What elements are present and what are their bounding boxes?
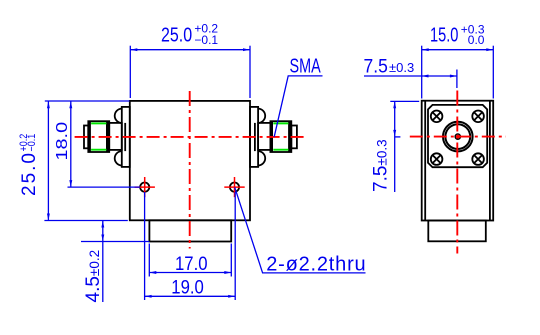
svg-text:25.0: 25.0 xyxy=(161,24,192,46)
svg-text:17.0: 17.0 xyxy=(175,253,208,274)
svg-text:7.5: 7.5 xyxy=(364,55,388,77)
svg-text:18.0: 18.0 xyxy=(53,122,70,161)
svg-text:±0.3: ±0.3 xyxy=(389,60,414,75)
svg-text:19.0: 19.0 xyxy=(171,277,204,298)
svg-text:SMA: SMA xyxy=(290,54,321,77)
svg-text:2-ø2.2thru: 2-ø2.2thru xyxy=(266,253,366,275)
svg-text:−0.1: −0.1 xyxy=(194,33,218,47)
svg-text:25.0: 25.0 xyxy=(19,151,40,196)
svg-text:0.0: 0.0 xyxy=(468,33,485,47)
svg-text:7.5±0.3: 7.5±0.3 xyxy=(371,139,392,192)
svg-text:15.0: 15.0 xyxy=(430,23,459,46)
svg-text:4.5±0.2: 4.5±0.2 xyxy=(83,250,104,303)
svg-text:−0.1: −0.1 xyxy=(26,133,38,151)
